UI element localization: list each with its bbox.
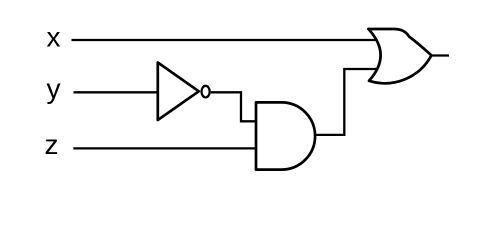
and-gate U2 [256, 102, 315, 169]
svg-text:y: y [47, 73, 61, 104]
inverter U1 bubble [202, 86, 210, 98]
svg-text:x: x [47, 22, 61, 53]
wire NOT output to AND input [211, 92, 256, 121]
svg-text:z: z [45, 129, 59, 160]
or-gate U3 [368, 29, 431, 83]
wire x input to OR gate [72, 39, 377, 41]
wire OR output [431, 54, 449, 56]
inverter U1 triangle [158, 63, 199, 121]
wire AND output to OR input [315, 69, 378, 135]
wire z input to AND gate [73, 147, 256, 149]
wire y input to NOT gate [74, 91, 158, 93]
